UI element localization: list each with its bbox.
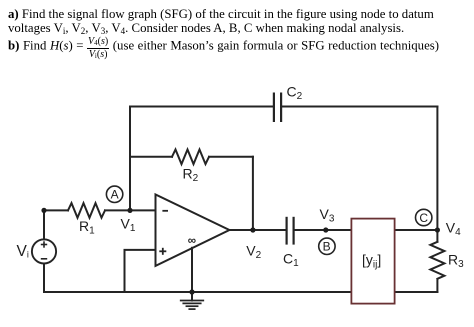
svg-text:V3: V3 xyxy=(320,206,335,225)
svg-text:C1: C1 xyxy=(283,251,299,270)
svg-text:R2: R2 xyxy=(183,166,199,185)
svg-text:C2: C2 xyxy=(287,84,303,103)
svg-text:R1: R1 xyxy=(79,218,95,237)
svg-text:∞: ∞ xyxy=(188,235,196,247)
svg-text:V2: V2 xyxy=(246,243,261,262)
svg-text:B: B xyxy=(323,239,331,253)
svg-text:V4: V4 xyxy=(446,220,461,239)
svg-text:C: C xyxy=(419,211,428,225)
svg-text:R3: R3 xyxy=(448,252,464,271)
svg-text:V1: V1 xyxy=(121,215,136,234)
svg-text:A: A xyxy=(111,188,119,202)
svg-text:Vi: Vi xyxy=(17,243,29,260)
